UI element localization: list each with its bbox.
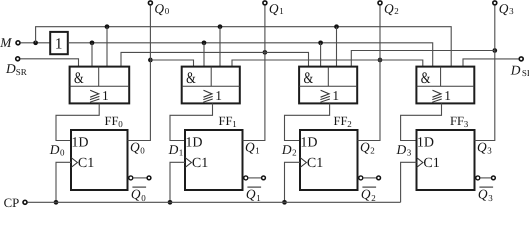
svg-text:2: 2 (370, 146, 375, 156)
svg-text:1: 1 (55, 35, 63, 52)
svg-text:0: 0 (141, 193, 146, 203)
svg-text:Q: Q (269, 1, 279, 16)
svg-text:2: 2 (347, 119, 352, 129)
node M-bar to gate 1 (90, 40, 95, 45)
output terminal Q3 (493, 1, 514, 16)
output terminal Q2-bar (377, 176, 381, 180)
svg-text:2: 2 (292, 147, 297, 157)
svg-text:1: 1 (255, 146, 259, 156)
node M-bar to gate 2 (202, 40, 207, 45)
svg-text:1: 1 (332, 88, 339, 103)
svg-text:D: D (510, 63, 521, 78)
wire M input to inverter (20, 42, 50, 44)
and-or gate U4 (416, 67, 474, 104)
wire M-bar drop to gate 1 (91, 43, 93, 67)
label Q1 output (245, 139, 260, 155)
wire Q3-bar stub (480, 177, 491, 179)
svg-text:C1: C1 (78, 156, 94, 171)
and-or gate U2 (182, 67, 240, 104)
wire Q3 to gate 3 (351, 51, 495, 67)
svg-text:D: D (396, 142, 407, 157)
wire M drop to gate 1 (106, 27, 108, 67)
wire Q1 output to terminal (243, 5, 265, 140)
svg-text:D: D (281, 142, 292, 157)
inversion bubble FF1 Q-bar (244, 176, 248, 180)
wire D1 net (gate 2 output to FF1 D input) (170, 103, 213, 140)
svg-text:3: 3 (509, 6, 514, 16)
node Q3 feedback junction (492, 48, 497, 53)
label D0 (49, 142, 65, 158)
node M bus to gate 3 (334, 24, 339, 29)
label OR symbol gate U2 (203, 88, 222, 103)
output terminal Q0 (148, 1, 169, 16)
wire Q1 to gate 1 and gate 3 (121, 52, 309, 66)
svg-text:1: 1 (179, 147, 184, 157)
label Q2-bar (361, 186, 376, 203)
svg-text:Q: Q (131, 186, 141, 201)
node CP to FF2 (282, 200, 287, 205)
wire Q3 output to terminal (475, 5, 495, 140)
output terminal Q2 (378, 1, 399, 16)
node Q0 feedback junction (148, 58, 153, 63)
svg-text:2: 2 (394, 6, 399, 16)
wire Q0 output to terminal (128, 5, 151, 140)
node Q2 feedback junction (378, 58, 383, 63)
svg-text:3: 3 (487, 146, 492, 156)
svg-text:SR: SR (16, 67, 27, 77)
svg-text:Q: Q (361, 186, 371, 201)
svg-text:C1: C1 (307, 156, 323, 171)
svg-text:D: D (5, 61, 16, 76)
flip-flop FF3 (417, 114, 475, 190)
svg-text:Q: Q (384, 1, 394, 16)
svg-text:1: 1 (102, 88, 109, 103)
wire D0 net (gate 1 output to FF0 D input) (56, 103, 99, 140)
svg-text:&: & (74, 70, 84, 87)
svg-text:0: 0 (165, 6, 170, 16)
wire clock riser FF2 (285, 162, 301, 202)
label AND symbol gate U2 (186, 70, 196, 87)
wire M drop to gate 2 (219, 27, 221, 67)
svg-text:1: 1 (215, 88, 222, 103)
label Q1-bar (246, 186, 261, 203)
svg-text:2: 2 (371, 193, 376, 203)
svg-text:3: 3 (464, 119, 469, 129)
input terminal M (0, 35, 20, 50)
svg-text:1: 1 (444, 88, 451, 103)
wire M-bar drop to gate 2 (203, 43, 205, 67)
svg-text:Q: Q (130, 139, 140, 154)
wire M bus (mode line) (36, 27, 452, 67)
svg-text:0: 0 (140, 146, 145, 156)
svg-text:C1: C1 (423, 156, 439, 171)
wire D3 net (gate 4 output to FF3 D input) (401, 103, 442, 140)
flip-flop FF1 (185, 114, 243, 190)
svg-text:1D: 1D (71, 136, 88, 151)
svg-text:1D: 1D (185, 136, 202, 151)
flip-flop FF0 (71, 114, 128, 190)
label D2 (281, 142, 297, 158)
wire D2 net (gate 3 output to FF2 D input) (285, 103, 330, 140)
inverter U5 (mode complement) (50, 32, 68, 54)
input terminal DSR (shift-right serial in) (5, 57, 27, 77)
svg-text:FF: FF (334, 114, 348, 128)
wire Q1-bar stub (248, 177, 261, 179)
svg-text:Q: Q (154, 1, 164, 16)
svg-text:CP: CP (4, 196, 20, 210)
svg-text:C1: C1 (192, 156, 208, 171)
node M bus to gate 1 (105, 24, 110, 29)
wire M-bar bus (68, 43, 433, 67)
inversion bubble FF2 Q-bar (359, 176, 363, 180)
label D1 (168, 142, 184, 158)
svg-text:3: 3 (488, 193, 493, 203)
label OR symbol gate U1 (90, 88, 109, 103)
svg-text:SL: SL (522, 68, 529, 78)
label Q3 output (477, 139, 492, 155)
wire clock riser FF1 (170, 162, 185, 202)
svg-text:D: D (49, 142, 60, 157)
svg-text:0: 0 (60, 147, 65, 157)
wire DSL to gate 4 (463, 59, 519, 67)
svg-text:&: & (186, 70, 196, 87)
inversion bubble FF3 Q-bar (476, 176, 480, 180)
flip-flop FF2 (300, 114, 358, 190)
label AND symbol gate U4 (421, 70, 431, 87)
node CP to FF1 (168, 200, 173, 205)
svg-text:1D: 1D (417, 136, 434, 151)
svg-text:1: 1 (256, 193, 261, 203)
svg-text:FF: FF (450, 114, 464, 128)
svg-text:M: M (0, 35, 12, 50)
output terminal Q1 (263, 1, 284, 16)
label AND symbol gate U1 (74, 70, 84, 87)
node M junction (33, 40, 38, 45)
wire CP bus (28, 201, 401, 203)
wire Q0-bar stub (133, 177, 146, 179)
svg-text:&: & (421, 70, 431, 87)
svg-text:1: 1 (232, 119, 237, 129)
wire Q2 to gate 2 and gate 4 (232, 60, 423, 67)
label Q0-bar (131, 186, 146, 203)
and-or gate U3 (299, 67, 357, 104)
svg-text:Q: Q (477, 139, 487, 154)
label OR symbol gate U4 (432, 88, 451, 103)
svg-text:Q: Q (246, 186, 256, 201)
svg-text:0: 0 (118, 119, 123, 129)
svg-text:Q: Q (360, 139, 370, 154)
svg-text:FF: FF (105, 114, 119, 128)
label D3 (396, 142, 412, 158)
wire clock riser FF3 (401, 162, 417, 202)
svg-text:&: & (304, 70, 314, 87)
inversion bubble FF0 Q-bar (129, 176, 133, 180)
label Q2 output (360, 139, 375, 155)
wire clock riser FF0 (56, 162, 71, 202)
output terminal Q3-bar (492, 176, 496, 180)
wire M drop to gate 3 (336, 27, 338, 67)
svg-text:1D: 1D (300, 136, 317, 151)
wire Q2 output to terminal (358, 5, 381, 140)
svg-text:Q: Q (478, 186, 488, 201)
svg-text:3: 3 (407, 147, 412, 157)
svg-text:Q: Q (499, 1, 509, 16)
node M-bar to gate 3 (318, 40, 323, 45)
label Q0 output (130, 139, 145, 155)
label AND symbol gate U3 (304, 70, 314, 87)
wire DSR to gate 1 (20, 59, 78, 67)
svg-text:FF: FF (219, 114, 233, 128)
wire Q0 to gate 2 (150, 60, 193, 67)
wire Q2-bar stub (363, 177, 376, 179)
node CP to FF0 (54, 200, 59, 205)
wire M-bar drop to gate 3 (320, 43, 322, 67)
input terminal DSL (shift-left serial in) (510, 57, 529, 78)
svg-text:D: D (168, 142, 179, 157)
input terminal CP (clock) (4, 196, 27, 210)
label Q3-bar (478, 186, 493, 203)
svg-text:1: 1 (279, 6, 284, 16)
output terminal Q1-bar (262, 176, 266, 180)
label OR symbol gate U3 (320, 88, 339, 103)
node Q1 feedback junction (263, 50, 268, 55)
svg-text:Q: Q (245, 139, 255, 154)
node M bus to gate 2 (218, 24, 223, 29)
output terminal Q0-bar (147, 176, 151, 180)
and-or gate U1 (70, 67, 130, 104)
